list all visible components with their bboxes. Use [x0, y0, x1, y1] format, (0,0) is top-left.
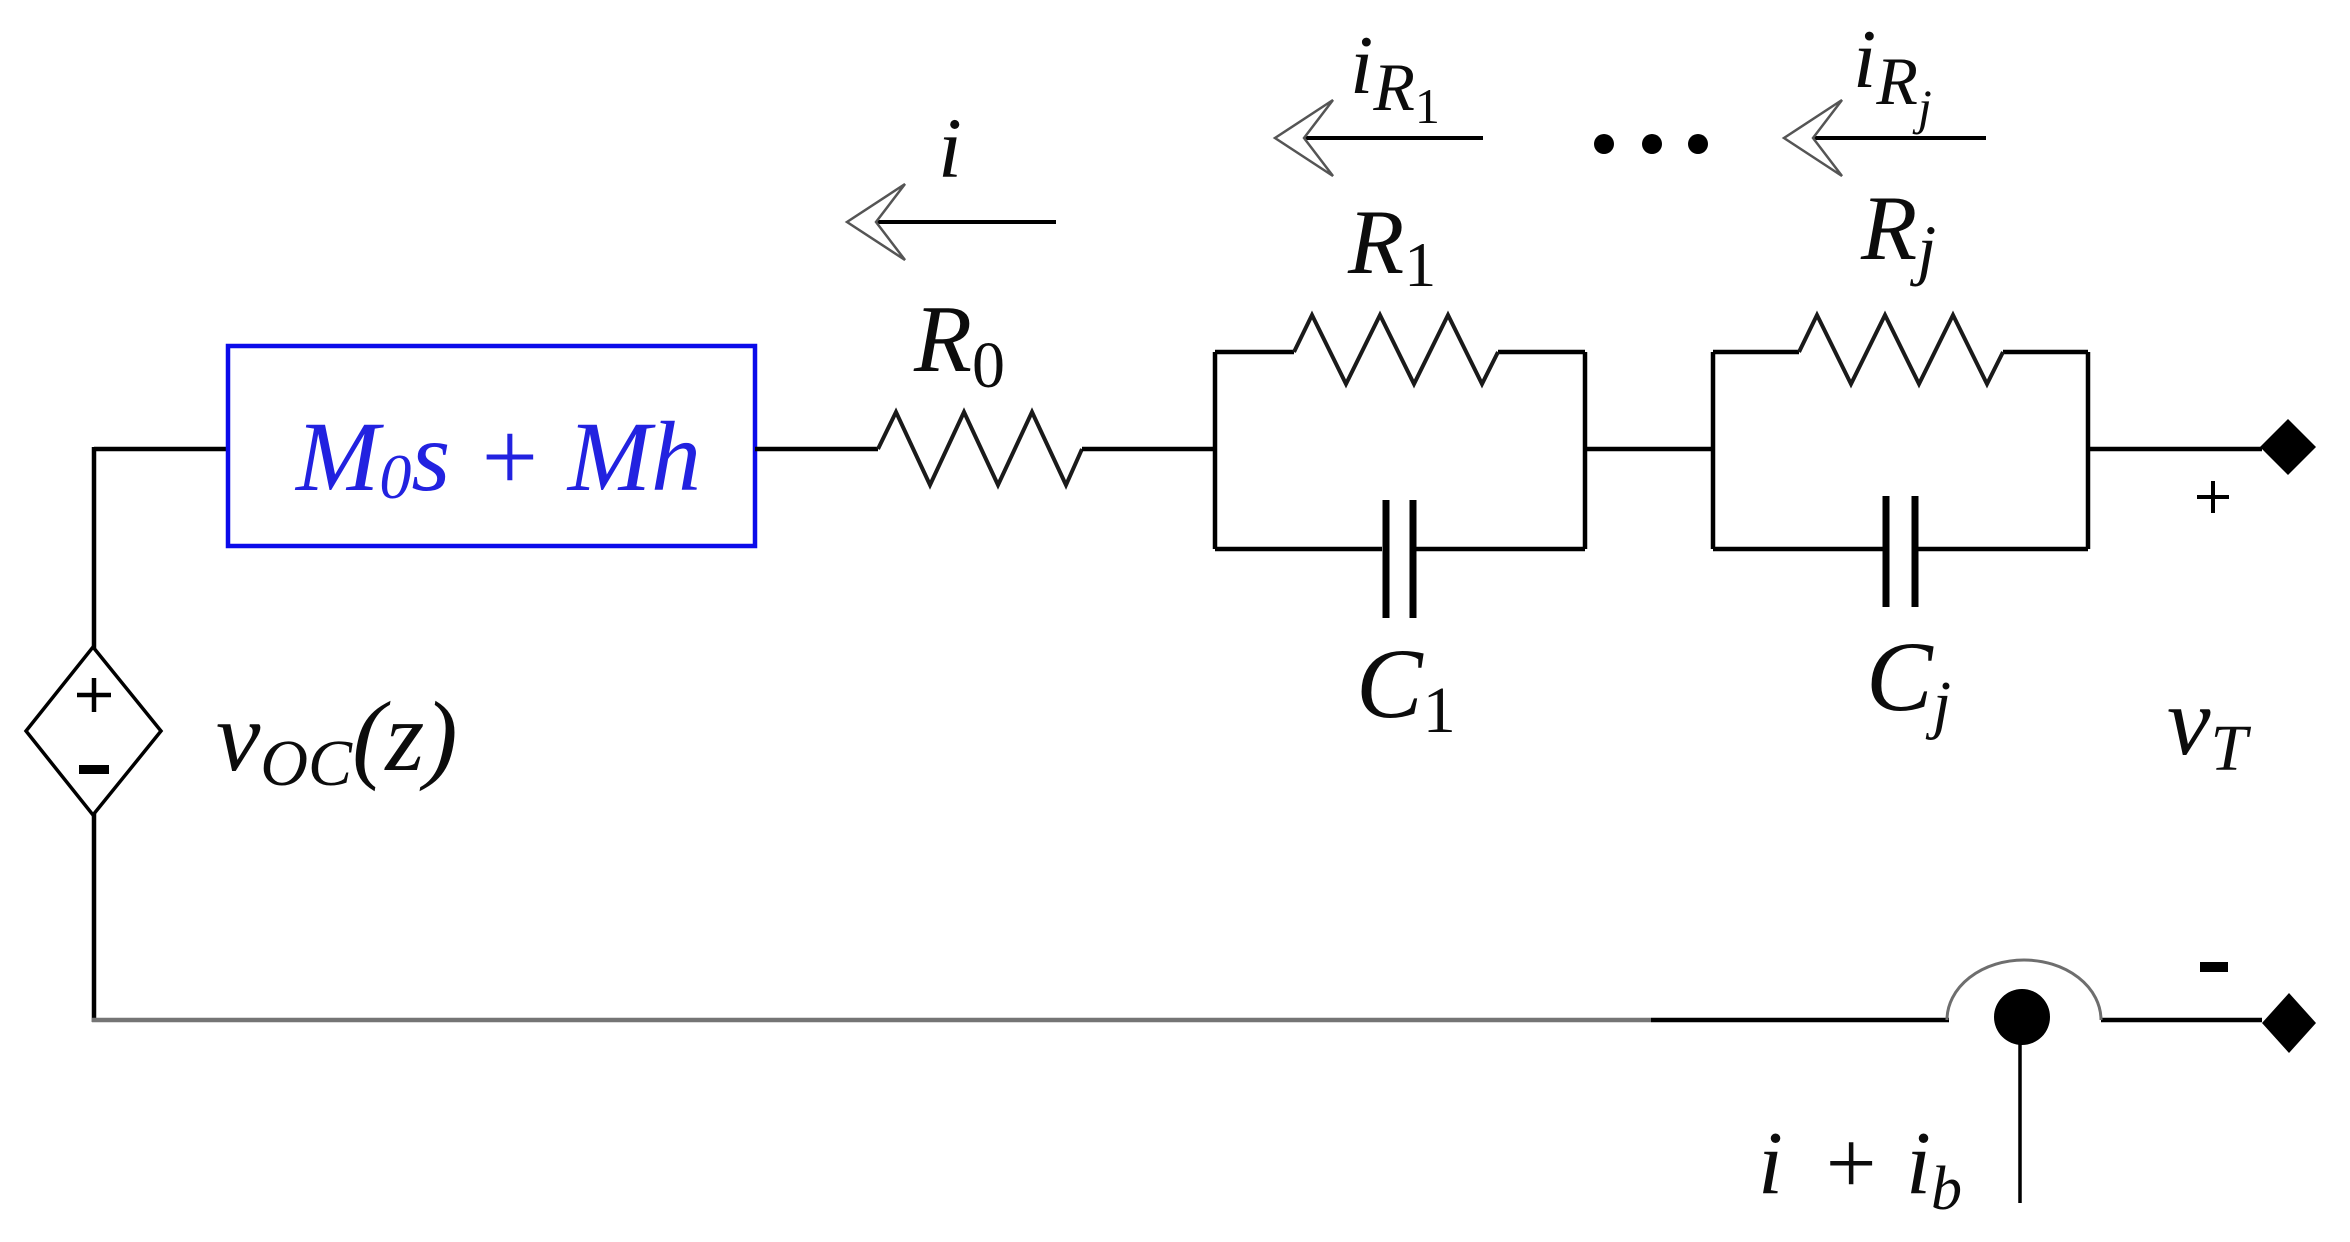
wire bottom black left of probe	[1651, 1018, 1949, 1023]
wire left top	[94, 447, 228, 452]
RC pair 1 frame	[1215, 352, 1585, 549]
probe dot	[1994, 989, 2050, 1045]
current arrow iRj	[1784, 100, 1986, 176]
capacitor Cj	[1886, 496, 1915, 607]
current arrow i	[847, 184, 1056, 260]
wire RC1 to RC2	[1585, 447, 1713, 452]
wire RC2 to terminal	[2088, 447, 2262, 452]
wire left vertical upper	[92, 447, 97, 649]
svg-text:i: i	[938, 100, 962, 196]
wire bottom gray	[92, 1018, 1651, 1023]
svg-text:+: +	[1820, 1114, 1881, 1213]
resistor R0	[878, 412, 1082, 485]
RC pair j frame	[1713, 352, 2088, 549]
terminal top (diamond)	[2260, 419, 2316, 475]
probe lead down	[2018, 1044, 2022, 1203]
capacitor C1	[1386, 500, 1413, 618]
plus sign inside source	[77, 678, 111, 712]
minus sign near bottom terminal	[2200, 962, 2228, 972]
current probe arc	[1947, 960, 2101, 1020]
svg-text:M0s + Mh: M0s + Mh	[294, 401, 701, 512]
svg-text:i: i	[1758, 1114, 1783, 1213]
current arrow iR1	[1275, 100, 1483, 176]
dots ellipsis	[1594, 134, 1708, 154]
wire R0 to RC1	[1082, 447, 1215, 452]
minus sign inside source	[79, 765, 109, 774]
wire box to R0	[755, 447, 878, 452]
plus sign near terminal	[2197, 481, 2229, 513]
wire bottom black right of probe	[2101, 1018, 2262, 1023]
dependent source V1 (diamond)	[26, 647, 161, 815]
resistor R1	[1294, 315, 1498, 384]
block M0s+Mh	[228, 346, 755, 546]
wire left vertical lower	[92, 813, 97, 1022]
terminal bottom (diamond)	[2262, 993, 2316, 1053]
resistor Rj	[1799, 315, 2003, 384]
